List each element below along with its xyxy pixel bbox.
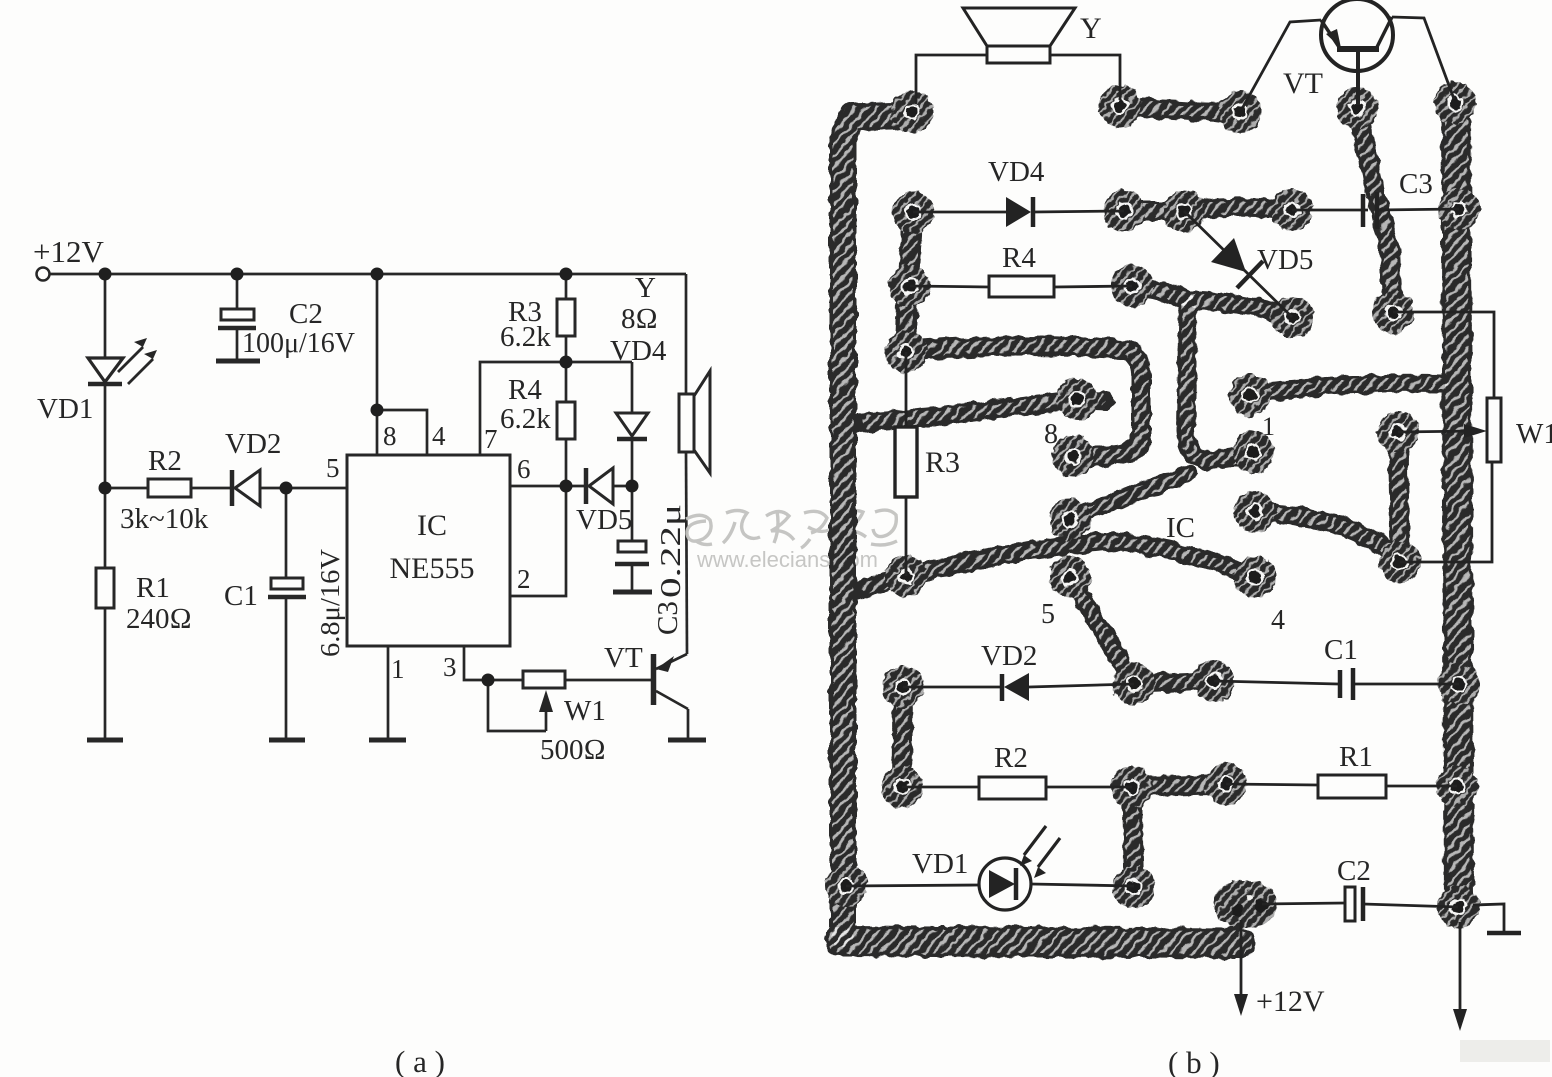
svg-text:1: 1 [391,654,405,684]
node pin3-W1 [482,674,495,687]
svg-text:C3: C3 [1399,168,1433,200]
wire speaker-right to VT-emitter pad [1120,106,1240,112]
node rail-C2 [231,268,244,281]
wire W1 wiper to W1 bottom [1398,432,1400,562]
svg-text:3: 3 [443,652,457,682]
watermark 电子发烧友网 www.elecians.com [686,510,897,548]
ground symbol (pcb) [1473,904,1504,932]
wire pin5 to VD2-right [1070,577,1134,684]
capacitor C2 (pcb) [1262,903,1345,904]
wire +12V rail [50,273,686,276]
wire pin4 branch [377,410,427,455]
svg-text:R2: R2 [148,445,182,477]
pad VD4-anode [892,191,934,233]
wire pin7 loop to R3-top [906,345,1141,456]
svg-text:IC: IC [417,509,447,542]
ground [87,738,123,743]
svg-text:C1: C1 [224,580,258,612]
svg-text:C2: C2 [289,298,323,330]
node rail-VD1 [99,268,112,281]
svg-text:4: 4 [1271,605,1285,636]
svg-text:5: 5 [326,453,340,483]
svg-text:VD2: VD2 [225,428,281,460]
node rail-pin8 [371,268,384,281]
resistor R2 (pcb) [902,786,979,789]
svg-text:6.2k: 6.2k [500,403,551,435]
svg-text:VD1: VD1 [37,393,93,425]
wire VD4-right pads [1124,201,1184,221]
pad VD1-left [825,865,867,907]
pad VT-emitter [1219,91,1261,133]
PCB thin component symbols [846,0,1521,1031]
speaker Y (pcb) [963,8,1075,46]
diode VD2 [230,470,235,506]
pad speaker-left [891,91,933,133]
svg-text:3k~10k: 3k~10k [120,503,209,535]
ground [369,738,406,743]
speaker Y [685,274,688,394]
diode VD4 (pcb) [913,211,1006,214]
node pin8-pin4 [371,404,384,417]
wire R2-right to VD1-right [1132,787,1134,888]
pad VD1-right [1113,866,1155,908]
diode VD2 (pcb) [903,686,1001,689]
wire junction down to pin2 [1186,301,1254,460]
pad C3-right [1438,188,1480,230]
pad R3-top [885,331,927,373]
svg-text:R2: R2 [994,742,1028,774]
svg-text:NE555: NE555 [390,552,475,585]
svg-text:+12V: +12V [33,234,104,269]
ground arrow (right border) [1459,922,1462,1020]
pad VD2-right [1113,663,1155,705]
wire pin6 [510,485,584,488]
wire R4-right to VD5 net junction [1132,286,1188,301]
wire pin8 branch down [376,274,379,455]
+12V supply terminal [37,268,50,281]
diode VD5 (pcb) [1184,211,1292,317]
node VD2-C1-pin5 [280,482,293,495]
pad IC pin 8 [1056,378,1098,420]
wire VD2-left to R2-left [902,687,903,787]
svg-text:+12V: +12V [1256,985,1325,1018]
pad +12V supply (double hole) [1213,880,1277,928]
pad R4-right [1111,265,1153,307]
pad IC pin 3 [1234,491,1276,533]
hatch lightening overlay on traces [840,104,1459,943]
wire pin3 [464,646,523,680]
node VD4-VD5-C3 [626,480,639,493]
svg-text:6.2k: 6.2k [500,321,551,353]
svg-text:7: 7 [484,424,498,454]
svg-text:W1: W1 [564,695,606,727]
wire VD4-left / R4-left / R3-top chain [906,212,913,352]
pad IC pin 5 [1049,556,1091,598]
resistor R3 (pcb) [905,352,908,427]
ground [269,738,305,743]
diode VD5 [584,468,589,504]
capacitor C1 [285,488,288,578]
pad VT-collector [1434,82,1476,124]
pad R3-bottom [885,555,927,597]
pad IC pin 6 [1049,498,1091,540]
pad IC pin 4 [1234,556,1276,598]
wire pin8 to left border [853,399,1105,424]
node A VD1-R2-R1 [99,482,112,495]
resistor R4 [565,362,568,402]
pad speaker-right [1099,85,1141,127]
svg-text:VD1: VD1 [912,848,968,880]
pad R2-left [881,766,923,808]
svg-text:( b ): ( b ) [1168,1045,1220,1077]
pad R1-right [1436,765,1478,807]
capacitor C3 (pcb) [1292,209,1368,212]
wire pin2 [510,486,566,596]
wire R3-bottom to pin4 [906,541,1254,577]
wire pin1 to right border [1250,384,1442,395]
transistor VT (pcb) [1321,0,1393,71]
PCB labels [912,12,1552,1077]
svg-text:8Ω: 8Ω [621,303,658,335]
node rail-R3 [560,268,573,281]
svg-text:VD4: VD4 [988,156,1045,188]
wire R3-bottom to left border [854,576,906,592]
svg-text:R4: R4 [1002,242,1036,274]
wire pin6 to pin2 junction [1070,474,1188,519]
svg-text:Y: Y [635,272,656,304]
svg-text:8: 8 [383,421,397,451]
wire border right (ground bus) [1456,104,1459,906]
pad C1-right [1438,663,1480,705]
wire VD5-bottom to junction [1188,301,1292,317]
svg-text:R1: R1 [136,572,170,604]
svg-text:VT: VT [1283,67,1323,100]
wire pin1 [387,646,390,740]
pad IC pin 1 [1229,374,1271,416]
svg-text:C1: C1 [1324,634,1358,666]
pad C3-left [1271,189,1313,231]
svg-text:VD2: VD2 [981,640,1037,672]
diode VD4 [631,362,634,413]
svg-text:W1: W1 [1516,418,1552,450]
+12V arrow [1240,920,1243,1005]
wire VD4-right to C3-left [1184,207,1292,211]
node dots [99,268,639,687]
capacitor C2 [236,274,239,309]
schematic (a) labels [33,234,687,1077]
svg-text:100μ/16V: 100μ/16V [242,328,355,359]
pad VD4-cathode [1103,190,1145,232]
svg-text:VD4: VD4 [610,335,667,367]
pad C1-left [1193,660,1235,702]
svg-text:240Ω: 240Ω [126,603,192,635]
svg-text:R3: R3 [925,446,960,479]
svg-text:4: 4 [432,421,446,451]
svg-text:VT: VT [604,642,643,674]
wire border bottom [840,941,1240,943]
svg-text:8: 8 [1044,419,1058,450]
svg-text:R1: R1 [1339,741,1373,773]
pad R1-left [1205,763,1247,805]
resistor R1 (pcb) [1226,784,1318,785]
wire VD1 branch down [104,274,107,358]
op-amp U1 : IC NE555 box [347,455,510,646]
capacitor C1 (pcb) [1214,681,1338,684]
svg-text:6: 6 [517,454,531,484]
wire VD1 to node A [104,384,107,488]
ground [668,738,706,743]
svg-text:VD5: VD5 [576,504,632,536]
svg-text:C2: C2 [1337,855,1371,887]
pad W1-wiper [1377,411,1419,453]
pad W1-bottom [1379,541,1421,583]
svg-text:6.8μ/16V: 6.8μ/16V [315,548,345,657]
photodiode VD1 (pcb) [846,885,979,886]
wire pin7 [480,362,632,455]
wire VD2-right to C1-left pads [1134,681,1214,684]
wire W1 wiper loop [488,680,546,731]
resistor R3 [565,274,568,299]
resistor R1 [104,488,107,568]
svg-text:2: 2 [517,564,531,594]
pad VD5-anode [1163,190,1205,232]
svg-text:( a ): ( a ) [395,1044,445,1077]
pad IC pin 7 [1052,435,1094,477]
wire R2-right pads [1132,784,1226,787]
svg-text:VD5: VD5 [1257,244,1313,276]
ground [613,590,652,595]
thick copper traces [840,104,1459,943]
photodiode VD1 [88,358,123,382]
node R4-pin6-pin2 [560,480,573,493]
transistor Q1 VT [651,654,657,705]
pad VD5-cathode [1271,296,1313,338]
svg-text:1: 1 [1262,412,1275,441]
svg-text:IC: IC [1166,512,1195,544]
wire VT base to W1 top pad [1357,110,1393,312]
pad R2-right [1111,766,1153,808]
potentiometer W1 [523,671,565,688]
svg-text:5: 5 [1041,599,1055,630]
capacitor C3 [631,486,634,541]
pad R4-left [889,265,931,307]
pad VT-base [1336,87,1378,129]
svg-text:0.22μ: 0.22μ [655,504,687,598]
solder pads [825,82,1480,928]
pad VD2-left [882,666,924,708]
ground [216,359,260,364]
svg-text:500Ω: 500Ω [540,734,606,766]
svg-text:R4: R4 [508,374,542,406]
node R3-R4-pin7 [560,356,573,369]
pad W1-top [1372,291,1414,333]
pad IC pin 2 [1232,431,1274,473]
wire border left (+12V bus) [843,115,905,940]
pad C2-right [1437,886,1479,928]
potentiometer W1 (pcb) [1398,431,1476,432]
resistor R2 [105,487,148,490]
svg-text:Y: Y [1080,12,1102,45]
resistor R4 (pcb) [910,286,989,287]
wire pin3 to W1-bottom [1255,512,1398,556]
svg-text:C3: C3 [652,601,684,635]
